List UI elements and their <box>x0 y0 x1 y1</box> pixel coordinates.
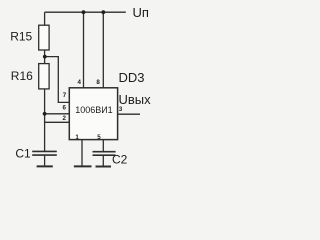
svg-text:C1: C1 <box>15 147 31 161</box>
svg-text:3: 3 <box>119 106 123 113</box>
svg-text:6: 6 <box>63 105 67 112</box>
svg-text:R16: R16 <box>11 69 33 83</box>
svg-text:4: 4 <box>77 79 81 86</box>
svg-text:1006ВИ1: 1006ВИ1 <box>75 105 113 115</box>
svg-text:Uп: Uп <box>133 5 149 20</box>
svg-text:DD3: DD3 <box>119 70 145 85</box>
svg-text:2: 2 <box>63 115 67 122</box>
svg-text:C2: C2 <box>112 153 128 167</box>
svg-text:5: 5 <box>97 134 101 141</box>
svg-text:1: 1 <box>75 134 79 141</box>
svg-text:Uвых: Uвых <box>119 92 152 107</box>
svg-text:R15: R15 <box>10 30 32 44</box>
svg-text:8: 8 <box>96 79 100 86</box>
svg-text:7: 7 <box>63 92 67 99</box>
